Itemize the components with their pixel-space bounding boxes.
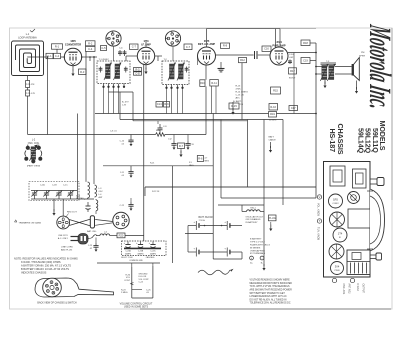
variable capacitor C1B (46, 191, 48, 194)
svg-text:47K: 47K (31, 84, 35, 86)
svg-text:R-5: R-5 (135, 67, 140, 71)
transformer ground (324, 80, 326, 84)
svg-text:LOOP ANTENNA: LOOP ANTENNA (18, 37, 37, 40)
filament line x77.5 (77, 114, 79, 200)
wire V4 plate to T3 (288, 52, 316, 54)
capacitor C19 box (301, 58, 310, 64)
filter choke coil (93, 214, 95, 236)
svg-text:AVC: AVC (236, 97, 241, 100)
loop antenna L1 (12, 41, 44, 76)
T1 pin drops (103, 87, 105, 114)
battery B cell 1 (195, 248, 197, 257)
chassis tube 6 (331, 262, 344, 275)
resistor R3 box (79, 69, 87, 75)
tube V2 1T4 IF amp (137, 47, 154, 64)
svg-text:BACK VIEW OF CHASSIS & SWITCH: BACK VIEW OF CHASSIS & SWITCH (37, 301, 77, 304)
variable capacitor C1A (34, 191, 36, 194)
tuning shaft (370, 178, 377, 180)
antenna tap wire (27, 56, 43, 58)
svg-text:40MFD: 40MFD (150, 254, 157, 256)
wire vertical x133 (132, 92, 134, 121)
svg-text:IF ADJ.: IF ADJ. (356, 284, 359, 292)
svg-text:GROUND: GROUND (139, 273, 148, 275)
ground under V1 (72, 66, 74, 71)
svg-text:C14: C14 (157, 102, 162, 106)
svg-text:C-7: C-7 (132, 45, 137, 49)
tube V3 1U5 det AF amp (198, 47, 216, 65)
battery A cell 1 (195, 221, 197, 230)
resistor R7 cluster (178, 143, 185, 149)
filter capacitor block C20 dashed box (122, 241, 167, 256)
wire vertical x316 (315, 43, 317, 198)
svg-text:.02: .02 (89, 248, 92, 250)
resistor R1 box (52, 44, 63, 49)
svg-text:R-13: R-13 (236, 86, 242, 88)
capacitor C7b box (184, 44, 192, 50)
oscillator coil L2 (25, 145, 42, 163)
T2 pins (166, 85, 168, 88)
wire vertical x213.2 (212, 114, 214, 234)
electrolytic C20A (127, 242, 129, 245)
svg-text:C-20A: C-20A (125, 250, 131, 253)
svg-text:C-5: C-5 (101, 46, 106, 50)
svg-text:USE 117V.: USE 117V. (58, 235, 68, 237)
capacitor C11 to ground (130, 169, 132, 172)
chassis tube 4 (333, 228, 347, 242)
wire main bus y113.5 (95, 113, 316, 115)
resistor R15b box (271, 87, 281, 94)
back view chassis silhouette (35, 278, 114, 297)
svg-text:3V4: 3V4 (276, 40, 282, 44)
svg-text:OSC. COIL: OSC. COIL (28, 143, 40, 145)
wire box top y187 (145, 186, 316, 188)
svg-text:OVERLAPPING: OVERLAPPING (250, 249, 265, 252)
chassis tube 5 (329, 244, 344, 259)
output transformer T3 (321, 62, 337, 64)
variable capacitor C1D (70, 191, 72, 194)
svg-text:R17: R17 (290, 69, 295, 73)
svg-text:IN SERIES: IN SERIES (250, 247, 261, 249)
T1 pins (103, 84, 105, 87)
svg-text:(PART VIEW): (PART VIEW) (27, 164, 41, 167)
capacitor C16 coupling (254, 51, 256, 59)
resistor R11 (210, 80, 219, 87)
capacitor C9 (159, 124, 161, 128)
resistor R2 vertical (26, 81, 30, 88)
svg-text:10 MEG: 10 MEG (269, 120, 277, 122)
svg-text:TYPE 1.5 VOLT: TYPE 1.5 VOLT (250, 242, 265, 244)
svg-text:B- BATT.: B- BATT. (233, 100, 242, 103)
svg-text:MEG: MEG (189, 165, 194, 167)
svg-text:CONVERTER: CONVERTER (65, 43, 81, 47)
svg-text:C-20B: C-20B (138, 251, 144, 253)
svg-text:CONT: CONT (124, 280, 131, 282)
battery A cell 2 (226, 221, 228, 230)
tube V4 3V4 power amp (270, 47, 288, 65)
resistor R5 box (134, 68, 142, 72)
svg-text:ARE SHOWN THAT RECEIVED POWER: ARE SHOWN THAT RECEIVED POWER (250, 289, 293, 292)
svg-text:C-1C: C-1C (63, 185, 68, 187)
svg-text:1.4V: 1.4V (122, 104, 127, 106)
coil L5 (96, 200, 98, 211)
capacitor C23 to ground (95, 238, 97, 244)
svg-text:R10: R10 (200, 81, 205, 85)
wire vertical x255 (255, 59, 257, 63)
svg-text:B+ 67V: B+ 67V (122, 101, 129, 103)
wire V3 plate (216, 54, 254, 56)
capacitor C6 cluster (119, 50, 121, 56)
svg-text:C-20C: C-20C (150, 251, 156, 253)
wire vertical x172.5 (172, 166, 174, 264)
T2 secondary coil (179, 64, 184, 79)
wire bus y134.5 (28, 134, 156, 136)
wire vertical x247.5 (247, 120, 249, 188)
wire B+ top (140, 28, 316, 30)
volume control circuit detail (131, 267, 133, 298)
wire y205 battery top (218, 204, 264, 206)
speaker ground (356, 81, 358, 90)
svg-text:OFF DISABLED: OFF DISABLED (246, 218, 262, 221)
capacitor C16 label box (262, 46, 271, 51)
wire vertical x197.5 (197, 56, 199, 65)
chassis bottom callouts (332, 278, 336, 282)
battery terminals (250, 256, 254, 260)
trimmers note (15, 220, 17, 222)
svg-text:470K: 470K (236, 89, 242, 91)
wire y198 (221, 197, 316, 199)
svg-text:LINE CORD: LINE CORD (61, 247, 73, 249)
svg-text:C-1B: C-1B (52, 185, 57, 187)
wire vertical x120 (119, 92, 121, 120)
svg-text:CAN NEG: CAN NEG (146, 256, 155, 259)
svg-text:ELECT: ELECT (289, 78, 296, 80)
svg-text:PWR. AMP: PWR. AMP (272, 43, 285, 47)
resistor R16 box (269, 104, 278, 111)
svg-text:50MFD: 50MFD (125, 254, 132, 256)
capacitor C2 (54, 53, 61, 58)
switch SW1 (247, 210, 261, 212)
electrolytic C21 (87, 202, 89, 206)
svg-text:R-2: R-2 (88, 41, 93, 45)
wire vertical x47.5 (47, 57, 49, 135)
svg-text:A BATTERY DRAIN: 250 MA. AT 1: A BATTERY DRAIN: 250 MA. AT 1.5 VOLTS (21, 263, 71, 267)
capacitor C22 to ground (130, 198, 132, 202)
cable box (269, 215, 277, 221)
chassis ground under V3 (220, 62, 222, 69)
wire vertical x283 (282, 120, 284, 206)
svg-text:C-8: C-8 (135, 72, 140, 76)
T2 trimmer cap (186, 67, 188, 73)
svg-text:ELECT. 150V: ELECT. 150V (121, 257, 133, 259)
gang rails (31, 190, 77, 192)
resistor R12 box (239, 58, 247, 63)
svg-text:PWR: PWR (334, 270, 340, 272)
IF can 1 top view (330, 166, 345, 186)
IF transformer T1 dashed box (97, 61, 130, 84)
svg-text:V: V (319, 195, 321, 199)
IF can 2 top view (353, 169, 367, 188)
volume shaft (370, 254, 376, 256)
capacitor C1 (46, 53, 53, 58)
capacitor C10 to ground (130, 138, 132, 141)
svg-text:FLASHLIGHT CELLS: FLASHLIGHT CELLS (250, 244, 271, 247)
svg-text:7.5V A: 7.5V A (199, 219, 206, 222)
T1 primary coil (106, 64, 111, 79)
svg-text:C19: C19 (303, 59, 308, 63)
svg-text:HS-187: HS-187 (328, 129, 337, 153)
svg-text:30MFD: 30MFD (137, 254, 144, 256)
svg-text:K=1000. THOUSAND (000) OHMS: K=1000. THOUSAND (000) OHMS (21, 260, 61, 264)
svg-text:TOLERANCE 20%. ALL READINGS DC: TOLERANCE 20%. ALL READINGS DC (250, 302, 291, 305)
svg-text:VOL. KNOB: VOL. KNOB (317, 203, 320, 216)
capacitor C7 box (130, 44, 139, 49)
svg-text:59L14Q: 59L14Q (356, 128, 365, 154)
battery B cell 2 (226, 248, 228, 257)
svg-text:C-8 .01: C-8 .01 (110, 131, 117, 133)
border frame (10, 28, 393, 309)
resistor R10 vert (200, 80, 205, 87)
svg-text:VOLTAGE READINGS SHOWN WERE: VOLTAGE READINGS SHOWN WERE (250, 279, 291, 282)
svg-text:ANT. ADJ.: ANT. ADJ. (348, 284, 351, 295)
coil L3 (88, 182, 90, 198)
svg-text:C-23: C-23 (88, 245, 92, 247)
svg-text:TUN. KNOB: TUN. KNOB (317, 227, 320, 240)
svg-text:COMMON GND: COMMON GND (129, 260, 143, 262)
IF transformer T2 dashed box (162, 61, 189, 85)
svg-text:AND PLUG: AND PLUG (61, 249, 72, 252)
T2 primary coil (170, 64, 175, 79)
svg-text:R-1: R-1 (55, 45, 60, 49)
svg-text:T-1 455KC: T-1 455KC (99, 59, 110, 61)
svg-text:R12: R12 (240, 58, 245, 62)
svg-text:IN BATTERY: IN BATTERY (246, 221, 259, 224)
svg-text:B BATTERY DRAIN: 10 MA. AT 90: B BATTERY DRAIN: 10 MA. AT 90 VOLTS (21, 267, 69, 271)
coil L4 (95, 185, 97, 197)
svg-text:1T4: 1T4 (338, 232, 343, 236)
svg-text:R-3: R-3 (80, 70, 85, 74)
dial cord wavy line (198, 270, 230, 275)
svg-text:R-6: R-6 (198, 157, 203, 161)
AC plug (78, 234, 88, 245)
svg-text:R-22 1K: R-22 1K (152, 191, 160, 193)
ground arrow x233 (232, 102, 234, 110)
svg-text:OUTPUT: OUTPUT (362, 284, 364, 294)
svg-text:BATT. BLOCK: BATT. BLOCK (199, 216, 214, 219)
svg-text:WITH BATTERY POWER TO GET: WITH BATTERY POWER TO GET (250, 292, 286, 295)
resistor boxes right of V1 label (86, 41, 96, 46)
resistor R6 box (197, 156, 203, 162)
svg-text:DO NOT RE-ALIGN. ALL TUNED IN: DO NOT RE-ALIGN. ALL TUNED IN (250, 298, 287, 301)
svg-text:PLUG: PLUG (269, 216, 276, 220)
wire vertical x264 (263, 120, 265, 267)
wire vertical x221 (220, 120, 222, 199)
wire vertical x143.75 long (143, 64, 145, 241)
T1 trimmer caps (100, 67, 102, 73)
wire V2 to T2 (155, 55, 162, 57)
wire antenna bottom lead (27, 76, 29, 135)
wire vertical x158 (157, 121, 159, 124)
wire vertical x206 (205, 65, 207, 80)
battery cable connector bar (90, 216, 94, 228)
svg-text:VOL CONT: VOL CONT (139, 279, 150, 281)
svg-text:C-15 .05: C-15 .05 (236, 95, 245, 97)
svg-text:R-16: R-16 (270, 105, 276, 109)
svg-text:TO B- WITH A VTVM. THE READING: TO B- WITH A VTVM. THE READINGS (250, 285, 290, 288)
electrolytic C20B (140, 242, 142, 245)
svg-text:C-1: C-1 (26, 82, 31, 86)
wire bus y120.7 (133, 120, 248, 122)
tube V1 1R5 converter (64, 48, 83, 65)
svg-text:2 MEG: 2 MEG (121, 292, 128, 294)
wire vertical x86 (85, 51, 87, 181)
wire y263 (97, 262, 160, 264)
svg-text:A.C. ONLY: A.C. ONLY (58, 237, 69, 240)
chassis output transformer (348, 209, 370, 228)
svg-text:C-18: C-18 (289, 54, 295, 56)
svg-text:R-11: R-11 (211, 81, 217, 85)
svg-text:MEG: MEG (205, 160, 210, 162)
svg-text:R19: R19 (270, 112, 275, 116)
svg-text:Motorola Inc.: Motorola Inc. (363, 22, 398, 113)
chassis top view outline (324, 162, 371, 278)
chassis tube 1 (329, 194, 343, 208)
crossing wires to battery plug (69, 220, 90, 226)
capacitor C17 box (289, 106, 298, 111)
chassis speaker (370, 189, 385, 251)
svg-text:BATT: BATT (269, 136, 275, 139)
svg-text:C-1A: C-1A (40, 184, 45, 187)
svg-text:OSC: OSC (99, 191, 104, 193)
chassis tube 3 (330, 212, 345, 227)
capacitor C5 (101, 46, 107, 51)
capacitor C12 cluster (173, 141, 175, 144)
svg-text:INDICATES CHASSIS: INDICATES CHASSIS (21, 270, 47, 274)
variable capacitor C1C (58, 191, 60, 194)
svg-text:C-2: C-2 (55, 54, 60, 58)
svg-text:C-4: C-4 (88, 47, 93, 51)
svg-text:R-15: R-15 (231, 104, 237, 108)
capacitor C13 (187, 141, 189, 144)
wires V4 top (275, 29, 277, 48)
svg-text:R-7: R-7 (179, 144, 184, 148)
svg-text:LOWER READINGS WITH 117V AC: LOWER READINGS WITH 117V AC (250, 295, 287, 298)
svg-text:1R5: 1R5 (333, 198, 338, 202)
svg-text:MEASURED FROM POINTS INDICATED: MEASURED FROM POINTS INDICATED (250, 282, 293, 285)
resistor R18 box (301, 40, 310, 46)
socket stubs (113, 46, 115, 61)
battery plug P2 (113, 212, 129, 228)
socket view S1 (106, 31, 121, 46)
svg-text:R20: R20 (119, 233, 124, 237)
resistor R4 zigzag (156, 133, 166, 137)
T2 pin drops (166, 88, 168, 114)
chassis callout circles (317, 195, 321, 199)
P1 top lead (62, 199, 64, 216)
svg-text:R18: R18 (303, 41, 308, 45)
battery wires (188, 225, 196, 227)
resistor box R8 (221, 43, 230, 48)
wire vertical x211 x216 (211, 86, 213, 114)
wire bus y119.5 (120, 119, 283, 121)
svg-text:C17: C17 (291, 106, 296, 110)
svg-text:C-7: C-7 (186, 45, 191, 49)
svg-text:1R5: 1R5 (70, 39, 76, 43)
tuning gang dashed box (29, 182, 79, 201)
svg-text:SW-1: SW-1 (250, 207, 256, 209)
svg-text:C16: C16 (264, 47, 269, 51)
T1 secondary coil (115, 64, 120, 79)
wire T1 to V2 (126, 55, 137, 57)
svg-text:RED DOT: RED DOT (67, 212, 78, 214)
switch rotor circle (43, 278, 62, 297)
svg-text:CABLE: CABLE (269, 139, 277, 142)
R19 box (269, 112, 277, 118)
electrolytic C20C (152, 242, 154, 245)
wire bus y165.5 (103, 165, 213, 167)
svg-text:OSCILLATOR CUT: OSCILLATOR CUT (246, 215, 265, 218)
svg-text:BY TERMINALS: BY TERMINALS (250, 252, 266, 255)
resistor R20 box (117, 233, 125, 238)
socket view S2 (165, 31, 180, 46)
svg-text:BAT. CBL.: BAT. CBL. (87, 230, 97, 233)
svg-text:CONV: CONV (332, 203, 339, 205)
svg-text:TRIMMERS ON GANG: TRIMMERS ON GANG (19, 222, 42, 225)
svg-text:OSC. ADJ.: OSC. ADJ. (342, 284, 345, 295)
svg-text:NOTE: RESISTOR VALUES ARE IND: NOTE: RESISTOR VALUES ARE INDICATED IN O… (14, 256, 78, 260)
speaker (352, 64, 354, 76)
chassis battery compartment (347, 250, 370, 275)
capacitor C14 box (156, 102, 163, 108)
svg-text:B BATTERY: B BATTERY (250, 238, 262, 241)
svg-text:3V4: 3V4 (335, 265, 340, 269)
svg-text:C-1: C-1 (26, 91, 31, 95)
wire V1 plate (82, 56, 98, 58)
filter common bus (124, 247, 161, 249)
wires T3 to speaker (335, 66, 352, 68)
svg-text:LUG ON: LUG ON (139, 276, 147, 278)
power plug P1 (57, 216, 70, 229)
A- lead arrow (53, 199, 55, 212)
wire antenna to V1 (44, 56, 65, 58)
svg-text:4.7K: 4.7K (31, 93, 36, 95)
wire vertical x294 (293, 53, 295, 114)
svg-text:R15: R15 (273, 89, 278, 93)
svg-text:USED IN SOME SETS: USED IN SOME SETS (124, 306, 149, 309)
chassis tube 2 (348, 192, 360, 204)
resistor R9 box (164, 102, 170, 108)
svg-text:R-8: R-8 (223, 44, 228, 48)
resistor R15 box (229, 103, 239, 109)
wire vertical x94 (93, 57, 95, 184)
